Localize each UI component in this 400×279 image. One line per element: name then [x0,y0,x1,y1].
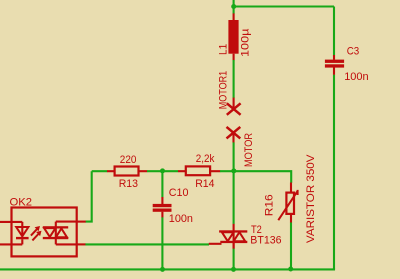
light arrow 1 [31,229,37,235]
node junction R13/C10 [160,168,165,173]
opto triac top lead [56,221,77,223]
resistor R14 lead left [178,170,185,172]
resistor R13 lead left [107,170,114,172]
opto triac bottom bar [43,237,68,239]
svg-text:C10: C10 [169,187,189,199]
node mid junction [231,168,236,173]
wire varistor to bottom rail [290,223,292,270]
svg-text:100n: 100n [169,213,193,225]
optocoupler OK2 pin lead right bottom [77,243,86,245]
svg-text:BT136: BT136 [250,234,281,246]
wire MOTOR pin down to mid junction [233,142,235,171]
capacitor C10 lead bottom [161,212,163,218]
inductor L1 body [228,20,238,54]
pin lead MOTOR [232,133,234,143]
node bottom junction T2 [231,267,236,272]
svg-text:VARISTOR 350V: VARISTOR 350V [305,154,317,243]
light arrow 2 [32,234,38,240]
svg-text:L1: L1 [217,44,229,55]
pin lead MOTOR1 [233,98,235,109]
capacitor C10 lead top [161,197,163,204]
inductor L1 lead bottom [233,54,235,61]
triac T2 bottom bar [220,241,247,243]
wire vertical from row to OK2 pin [85,171,91,221]
LED cathode lead [21,239,23,244]
triac T2 lead bottom [233,243,235,249]
opto triac top bar [43,226,68,228]
optocoupler OK2 pin lead right top [77,221,86,223]
capacitor C3 lead top [333,55,335,60]
node top junction [231,4,236,9]
svg-text:100µ: 100µ [240,28,252,57]
triac T2 right triangle [234,232,246,241]
wire R14 to mid junction [220,170,234,172]
resistor R14 body [186,166,210,175]
opto triac left triangle [44,228,55,237]
resistor R13 lead right [139,170,147,172]
svg-text:MOTOR1: MOTOR1 [218,71,230,110]
LED triangle [16,227,28,236]
node bottom junction varistor [288,267,293,272]
unconnected cross X MOTOR [227,127,241,138]
LED anode lead [21,222,23,237]
svg-text:R14: R14 [195,178,214,190]
resistor R13 body [115,167,139,176]
svg-text:R16: R16 [263,194,275,216]
wire right vertical to C3 [333,7,335,56]
resistor R14 lead right [211,170,221,172]
triac T2 gate lead [209,243,222,245]
LED cathode bar [16,237,29,239]
optocoupler OK2 pin lead left bottom [0,243,22,245]
optocoupler OK2 box [12,208,77,257]
wire bottom rail [0,268,334,269]
opto triac bottom lead [56,243,77,245]
capacitor C10 wire from junction [161,171,163,197]
wire C3 down right side [333,75,335,270]
unconnected cross X MOTOR1 [227,103,241,115]
wire R13 to junction [147,170,163,172]
wire mid junction to varistor corner [234,171,291,183]
svg-text:100n: 100n [344,71,369,83]
capacitor C3 plates [325,60,344,63]
wire mid junction down to T2 [233,171,235,224]
svg-text:2,2k: 2,2k [196,153,215,165]
wire top vertical stub above junction [233,0,235,7]
wire C10 to bottom rail [161,217,163,269]
capacitor C3 lead bottom [333,67,335,75]
svg-text:R13: R13 [119,178,138,190]
svg-text:220: 220 [120,154,137,166]
optocoupler OK2 pin lead left top [0,221,22,223]
triac T2 lead top [233,224,235,231]
varistor R16 body [286,193,294,214]
node bottom junction C10 [160,267,165,272]
wire junction to R14 [163,170,179,172]
svg-text:OK2: OK2 [10,197,33,209]
inductor L1 lead top [233,13,235,20]
wire L1 to MOTOR1 pin [233,60,235,98]
wire gate net OK2 to T2 [85,243,209,245]
triac T2 center line [233,231,235,249]
wire T2 to bottom rail [233,249,235,270]
varistor R16 lead bottom [290,215,292,223]
wire top horizontal [234,5,334,7]
capacitor C10 plates [153,204,172,207]
svg-text:MOTOR: MOTOR [243,133,255,167]
svg-text:C3: C3 [347,45,360,57]
triac T2 left triangle [222,232,234,241]
varistor R16 lead top [290,183,292,193]
opto triac right triangle [56,229,67,238]
triac T2 top bar [219,230,247,232]
wire row horizontal left segment [92,170,108,172]
opto triac center lead [55,222,57,245]
varistor R16 diagonal [278,190,297,220]
wire from junction down to L1 [233,7,235,14]
